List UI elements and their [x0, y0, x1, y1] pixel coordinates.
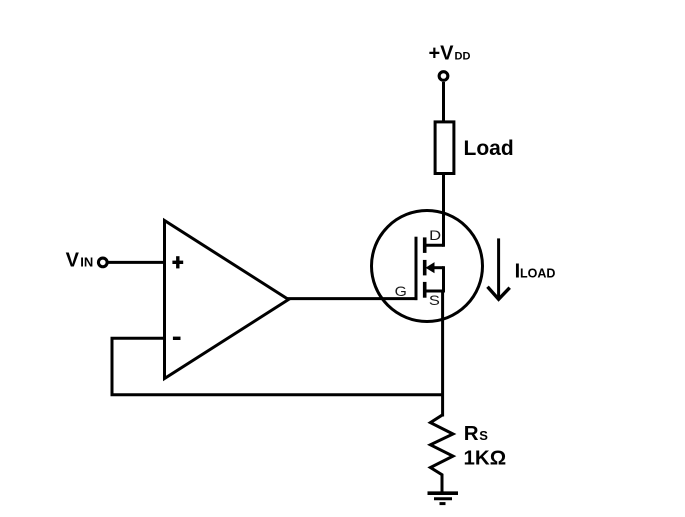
svg-text:D: D — [429, 227, 441, 243]
svg-text:S: S — [429, 292, 440, 308]
svg-text:S: S — [479, 428, 488, 443]
svg-text:Load: Load — [464, 137, 514, 160]
svg-text:V: V — [66, 250, 80, 272]
svg-text:+V: +V — [429, 43, 455, 65]
svg-text:LOAD: LOAD — [520, 267, 555, 281]
svg-text:IN: IN — [80, 255, 93, 270]
svg-text:DD: DD — [455, 51, 471, 63]
svg-text:R: R — [464, 422, 479, 445]
svg-text:G: G — [395, 283, 407, 299]
svg-text:1KΩ: 1KΩ — [464, 446, 507, 469]
